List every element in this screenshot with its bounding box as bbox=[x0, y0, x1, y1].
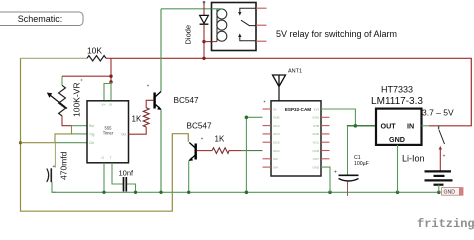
wire red pot bottom to stair bbox=[62, 116, 72, 126]
ground rail bbox=[52, 191, 439, 193]
node diode bus junction bbox=[202, 57, 205, 60]
svg-text:100K-VR: 100K-VR bbox=[72, 83, 82, 118]
svg-text:IO14: IO14 bbox=[273, 149, 280, 153]
wire green IN stub bbox=[422, 125, 430, 127]
wire red 555 out to 1K bbox=[129, 127, 147, 134]
battery BT1 bbox=[425, 171, 453, 184]
capacitor 470mfd bbox=[47, 151, 69, 182]
antenna ANT1 bbox=[273, 69, 303, 101]
svg-text:3.7 – 5V: 3.7 – 5V bbox=[422, 107, 454, 117]
svg-text:3V3: 3V3 bbox=[314, 107, 320, 111]
node V+ left junction bbox=[19, 141, 22, 144]
regulator U2 LM1117 bbox=[371, 85, 423, 145]
wire olive stair mid bbox=[55, 126, 72, 143]
svg-text:BC547: BC547 bbox=[174, 96, 199, 105]
svg-text:+: + bbox=[443, 154, 446, 160]
wire red drop to 555 bbox=[110, 58, 112, 82]
svg-text:Li-Ion: Li-Ion bbox=[402, 154, 425, 164]
svg-text:IO16: IO16 bbox=[312, 116, 319, 120]
wire green 555 top pins bbox=[104, 82, 111, 101]
svg-text:HT7333: HT7333 bbox=[381, 85, 413, 95]
wire olive cap top lead bbox=[54, 143, 56, 168]
svg-text:470mfd: 470mfd bbox=[59, 151, 69, 180]
relay pin stubs bbox=[256, 8, 267, 41]
svg-text:Out: Out bbox=[121, 132, 126, 136]
svg-text:V+: V+ bbox=[102, 103, 106, 107]
node drop junction 1 bbox=[109, 75, 112, 78]
node diode coil junction bbox=[202, 40, 205, 43]
module ESP32-CAM bbox=[263, 101, 330, 176]
svg-text:10nf: 10nf bbox=[119, 169, 135, 178]
wire green coil top inside bbox=[212, 8, 223, 10]
svg-text:ANT1: ANT1 bbox=[288, 69, 302, 75]
svg-text:UOT: UOT bbox=[313, 157, 320, 161]
capacitor C1 100uF bbox=[334, 126, 369, 196]
relay contacts bbox=[240, 8, 256, 12]
wire red coil bottom bbox=[204, 41, 217, 43]
resistor 1K vertical bbox=[132, 108, 150, 127]
wire green Q2 emitter down bbox=[188, 161, 190, 193]
svg-text:IO15: IO15 bbox=[273, 141, 280, 145]
resistor 1K horizontal bbox=[212, 135, 229, 154]
wire green 555 pin2 stub bbox=[72, 133, 88, 135]
wire red Q2 base to 1K bbox=[197, 150, 212, 152]
svg-text:IO12: IO12 bbox=[273, 124, 280, 128]
svg-text:+: + bbox=[53, 164, 56, 170]
svg-text:ESP32-CAM: ESP32-CAM bbox=[285, 107, 311, 112]
wire red 1K to ESP pin bbox=[229, 150, 241, 152]
svg-text:fritzing: fritzing bbox=[417, 217, 474, 231]
svg-text:1K: 1K bbox=[215, 135, 225, 144]
svg-text:Schematic:: Schematic: bbox=[18, 14, 63, 24]
transistor Q1 BC547 bbox=[147, 85, 199, 110]
wire green Q1 collector up bbox=[160, 9, 162, 92]
node drop junction 2 bbox=[109, 80, 112, 83]
svg-text:STB: STB bbox=[313, 124, 319, 128]
svg-text:1K: 1K bbox=[132, 115, 142, 124]
wire green 555 pin1 stub bbox=[72, 125, 88, 127]
svg-text:LM1117-3.3: LM1117-3.3 bbox=[371, 96, 423, 107]
svg-text:IO13: IO13 bbox=[273, 132, 280, 136]
svg-text:IN: IN bbox=[407, 121, 414, 130]
resistor 10K bbox=[87, 46, 106, 62]
wire green out net bbox=[347, 125, 376, 127]
wire green battery to rail bbox=[438, 185, 440, 193]
svg-text:T: T bbox=[110, 156, 112, 160]
wire green 555 pin3 stub bbox=[55, 142, 87, 144]
wire olive to 555 pin3 bbox=[21, 142, 56, 144]
wire pale top lead bbox=[21, 57, 88, 59]
wire red coil bottom inside bbox=[212, 41, 218, 43]
switch S1 bbox=[439, 126, 446, 172]
svg-text:+: + bbox=[334, 170, 337, 176]
relay coil bbox=[216, 9, 218, 42]
wire green 555 pin bottom left bbox=[103, 163, 105, 193]
svg-text:IO2: IO2 bbox=[273, 157, 278, 161]
right pin stubs bbox=[321, 117, 330, 159]
diode D1 bbox=[184, 1, 209, 58]
svg-text:Diode: Diode bbox=[184, 25, 193, 45]
svg-text:UOR: UOR bbox=[312, 149, 320, 153]
pin labels bbox=[273, 107, 281, 169]
svg-text:IO4: IO4 bbox=[273, 165, 278, 169]
svg-text:GND: GND bbox=[273, 116, 281, 120]
net label GND bbox=[442, 188, 464, 196]
potentiometer 100K-VR bbox=[47, 76, 83, 117]
svg-text:VCC: VCC bbox=[313, 141, 320, 145]
schematic button bbox=[0, 12, 83, 26]
wire green diode top rail bbox=[161, 8, 217, 10]
wire green ESP 3V3 to regulator out bbox=[321, 109, 355, 126]
svg-text:Rst: Rst bbox=[89, 124, 94, 128]
wire green reg GND to rail bbox=[397, 145, 399, 192]
svg-text:GND: GND bbox=[312, 165, 320, 169]
transistor Q2 BC547 bbox=[187, 121, 212, 161]
wire green cap bottom to rail bbox=[52, 182, 56, 192]
wire V+ olive loop bbox=[21, 58, 189, 211]
svg-text:GND: GND bbox=[444, 190, 456, 196]
wire green ESP gnd pin2 bbox=[246, 117, 262, 192]
wire red pot top to drop bbox=[62, 75, 111, 77]
svg-text:OUT: OUT bbox=[381, 121, 397, 130]
wire green 1K to ESP pin bbox=[241, 150, 263, 152]
wire green ESP gnd right to rail bbox=[321, 167, 330, 192]
rail junction dots bbox=[102, 191, 440, 195]
wire green Q1 emitter down bbox=[160, 110, 162, 193]
svg-text:GND: GND bbox=[312, 132, 320, 136]
left pin stubs bbox=[263, 109, 272, 167]
svg-text:Timer: Timer bbox=[103, 131, 114, 136]
node pin2 corner bbox=[245, 116, 249, 120]
relay K1 bbox=[212, 3, 257, 51]
svg-text:BC547: BC547 bbox=[187, 121, 212, 130]
IC 555 timer bbox=[87, 101, 129, 163]
capacitor 10nf bbox=[112, 163, 136, 193]
wire red 1K to Q1 base bbox=[146, 100, 153, 108]
svg-text:Ctrl: Ctrl bbox=[89, 141, 94, 145]
svg-text:100µF: 100µF bbox=[354, 161, 369, 167]
wire maroon V+ top bus bbox=[106, 58, 471, 126]
svg-text:Trig: Trig bbox=[89, 132, 95, 136]
svg-text:5V: 5V bbox=[273, 107, 277, 111]
node out net junction bbox=[354, 124, 358, 128]
svg-text:5V relay for switching of Alar: 5V relay for switching of Alarm bbox=[276, 29, 397, 39]
svg-text:10K: 10K bbox=[87, 46, 102, 56]
svg-text:GND: GND bbox=[389, 135, 405, 144]
